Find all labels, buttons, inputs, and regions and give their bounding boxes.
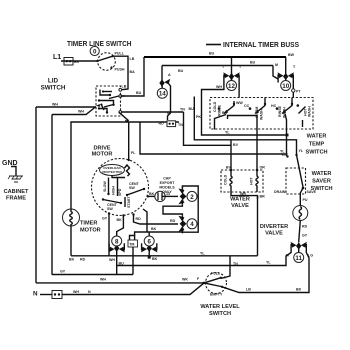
svg-text:WASH: WASH: [260, 109, 264, 120]
wire: empty contact to contact 11 right arm: [222, 253, 309, 293]
water valve hot coil: [250, 166, 266, 193]
wire: WH line from lid switch left to left vertical: [36, 103, 96, 108]
wire: valve common down to junction: [257, 196, 259, 256]
svg-text:EXPORT: EXPORT: [160, 181, 176, 185]
wire: lid terminal x197 down and right to x286: [121, 95, 126, 97]
svg-text:GY: GY: [302, 234, 308, 238]
svg-text:SPD: SPD: [118, 188, 122, 196]
circled 4: [187, 219, 197, 229]
svg-text:BV: BV: [233, 143, 239, 147]
bracket between contacts 2 and 4: [163, 204, 182, 215]
wire: outer loop joining contacts 2 and 4: [182, 186, 198, 232]
svg-text:SAVER: SAVER: [312, 179, 331, 185]
motor high winding label: [111, 178, 122, 197]
timer contact 8: [109, 237, 125, 253]
svg-text:WW: WW: [236, 101, 243, 105]
svg-text:WH: WH: [73, 290, 79, 294]
svg-text:11: 11: [295, 255, 302, 262]
wire: left long vertical x52 down: [51, 115, 53, 275]
timer contact 2: [178, 187, 186, 205]
circled 8: [112, 236, 122, 246]
svg-text:SW: SW: [107, 207, 113, 211]
svg-text:WATER LEVEL: WATER LEVEL: [200, 304, 240, 310]
motor lead RD to contact 4: [132, 213, 178, 224]
svg-text:WH: WH: [109, 258, 115, 262]
svg-text:BK: BK: [149, 192, 155, 196]
svg-text:PK: PK: [196, 115, 201, 119]
svg-text:TN: TN: [178, 123, 183, 127]
svg-text:HC: HC: [271, 104, 277, 108]
timer contact 10: [273, 57, 296, 85]
svg-text:N: N: [33, 291, 38, 298]
svg-text:WATER: WATER: [230, 197, 250, 203]
circled 2: [187, 191, 198, 201]
svg-text:FL: FL: [131, 151, 136, 155]
wire: contact 8 stem to connector: [116, 252, 118, 275]
svg-text:6: 6: [147, 238, 151, 245]
svg-text:PULL: PULL: [115, 52, 125, 56]
svg-text:CC: CC: [244, 104, 250, 108]
wire: 10 bottom to temp switch box: [292, 85, 302, 98]
second buss line: [162, 65, 273, 67]
svg-text:MOTOR: MOTOR: [92, 152, 113, 158]
temp switch section 2 contact: [244, 101, 266, 120]
timer contact 6: [141, 232, 157, 253]
wire: run y266.5 from connector to contact 11 left arm: [117, 253, 291, 266]
circled 10: [281, 79, 291, 91]
svg-text:BU: BU: [250, 61, 256, 65]
timer motor coil circle: [63, 209, 80, 226]
svg-text:TIMER: TIMER: [80, 221, 97, 227]
water saver blade: [295, 149, 304, 189]
svg-text:HOT: HOT: [250, 177, 254, 185]
svg-text:DIVERTER: DIVERTER: [260, 224, 288, 230]
circled 12: [227, 79, 237, 91]
wire: contact 6 stem down: [148, 252, 158, 262]
circled 11: [294, 249, 304, 263]
svg-text:0: 0: [93, 48, 97, 55]
wire: second line from lid switch to x52 vertical: [52, 107, 96, 115]
water valve: dashed box: [221, 170, 263, 192]
svg-text:LID: LID: [48, 78, 59, 85]
svg-text:MODELS: MODELS: [159, 186, 175, 190]
svg-text:EMPTY: EMPTY: [210, 293, 223, 297]
svg-text:YL: YL: [280, 150, 285, 154]
svg-text:BK: BK: [69, 258, 75, 262]
water valve cold coil: [224, 166, 233, 193]
svg-text:YL: YL: [266, 261, 271, 265]
timer contact 12: [222, 57, 242, 85]
wire: x257 down to valve OR: [228, 116, 258, 171]
svg-text:13: 13: [166, 192, 170, 196]
circled 0: [90, 46, 99, 55]
svg-text:HIGH: HIGH: [111, 186, 115, 195]
internal timer buss main line: [144, 56, 286, 58]
water saver switch: dashed box: [286, 168, 306, 194]
wire: x192 down to y140 right with valve branch: [184, 112, 232, 145]
svg-text:VALVE: VALVE: [265, 231, 283, 237]
circled 6: [144, 236, 154, 246]
svg-text:WASH: WASH: [308, 106, 312, 117]
svg-text:SW: SW: [129, 186, 135, 190]
svg-text:L1: L1: [53, 54, 61, 61]
diverter valve coil: [293, 188, 308, 221]
wire: run y262 from x52 to valve common: [52, 247, 133, 275]
circled 14: [157, 86, 167, 98]
svg-text:F: F: [197, 277, 200, 281]
svg-text:LB: LB: [130, 57, 135, 61]
svg-text:T: T: [293, 65, 296, 69]
svg-text:TIMER LINE SWITCH: TIMER LINE SWITCH: [67, 41, 132, 48]
wire: diverter coil to contact 11: [299, 221, 308, 243]
water level switch: dashed body circle: [206, 273, 227, 294]
wire: water level feed y282 from x36: [36, 282, 204, 284]
svg-text:CABINET: CABINET: [4, 189, 29, 195]
motor slow winding label: [103, 178, 110, 196]
svg-text:GY: GY: [60, 270, 66, 274]
svg-text:FULL: FULL: [211, 272, 221, 276]
lid switch internal contacts: [96, 88, 122, 113]
wire: 14 right arm down via connector to cap line: [167, 84, 171, 121]
svg-text:GY: GY: [102, 217, 108, 221]
svg-text:LB: LB: [122, 85, 127, 89]
timer contact 4: [178, 216, 186, 234]
connector CC at L1: [64, 58, 80, 66]
water temp switch: dashed box: [210, 98, 313, 130]
svg-text:PT: PT: [296, 90, 301, 94]
wire: 12 left arm step down to x202 run: [202, 84, 224, 95]
svg-text:CAP: CAP: [163, 177, 171, 181]
svg-text:TN: TN: [180, 108, 185, 112]
svg-text:RINSE: RINSE: [278, 105, 282, 117]
svg-text:8: 8: [115, 238, 119, 245]
svg-text:SWITCH: SWITCH: [41, 85, 66, 92]
motor cent sw lower blade: [102, 198, 122, 211]
svg-text:2: 2: [190, 194, 194, 201]
svg-text:N: N: [88, 290, 91, 294]
motor lead to contact 6: [143, 209, 147, 232]
svg-text:SWITCH: SWITCH: [209, 311, 231, 317]
connector DD on y122 line: [167, 121, 176, 127]
svg-text:BU: BU: [209, 52, 215, 56]
svg-text:BW: BW: [288, 53, 295, 57]
wire: 12 right arm drop to section1 contact: [238, 84, 240, 98]
svg-text:12: 12: [228, 83, 235, 90]
capacitor 13: [155, 191, 178, 201]
svg-text:LB: LB: [246, 288, 251, 292]
legend: INTERNAL TIMER BUSS: [206, 42, 299, 49]
water saver drain contact: [281, 153, 289, 158]
svg-text:4: 4: [190, 221, 194, 228]
wire: pull contact to LB vertical: [113, 56, 128, 90]
svg-text:COLD: COLD: [213, 101, 217, 112]
svg-text:YL: YL: [225, 131, 230, 135]
timer line switch blade and contacts: [96, 52, 124, 72]
motor right lead to capacitor: [147, 192, 155, 198]
wire: section verticals inside box: [264, 98, 266, 102]
drive motor: dashed body circle: [92, 159, 149, 216]
svg-text:BU: BU: [222, 111, 228, 115]
svg-text:INTERNAL TIMER BUSS: INTERNAL TIMER BUSS: [223, 42, 299, 49]
svg-text:WATER: WATER: [307, 134, 327, 140]
svg-text:RD: RD: [80, 258, 86, 262]
svg-text:BU: BU: [178, 69, 184, 73]
overload protector: [100, 159, 130, 178]
wire: inner rect left/top (through timer motor): [71, 122, 179, 256]
wire: lid switch terminal to bus drop x144: [122, 57, 145, 96]
svg-text:SLOW: SLOW: [103, 181, 107, 192]
svg-text:BR: BR: [260, 195, 266, 199]
temp switch section 1 contact: [213, 101, 243, 130]
svg-text:WH: WH: [100, 278, 106, 282]
timer contact 14: [159, 66, 171, 87]
wire: x202 from contact12 down to y134 right to saver pivot: [202, 95, 288, 135]
svg-text:PU: PU: [303, 198, 308, 202]
svg-text:OR: OR: [260, 166, 266, 170]
svg-text:PUSH: PUSH: [115, 68, 125, 72]
wire: long run y254 from timer motor to valve: [71, 255, 258, 257]
svg-text:BK: BK: [152, 257, 158, 261]
svg-text:BK: BK: [296, 288, 302, 292]
svg-text:MOTOR: MOTOR: [80, 228, 101, 234]
svg-text:VALVE: VALVE: [231, 203, 249, 209]
svg-text:BA: BA: [130, 70, 136, 74]
svg-text:RD: RD: [302, 225, 308, 229]
motor cent sw upper blade: [126, 182, 145, 196]
svg-text:COLD: COLD: [224, 174, 228, 185]
wire: valve coils to bottom common: [231, 192, 265, 199]
motor top lead FL: [129, 122, 136, 160]
svg-text:SWITCH: SWITCH: [305, 150, 327, 156]
lid switch blade to lower junction: [119, 112, 129, 123]
svg-text:RD: RD: [170, 219, 176, 223]
lid switch: dashed body box: [96, 86, 121, 116]
wire: neutral line to water level pivot: [40, 283, 204, 295]
svg-text:WATER: WATER: [312, 171, 332, 177]
wire: run y258 from contact6 to full contact: [222, 256, 231, 278]
water level switch blades: [197, 272, 223, 297]
svg-text:14: 14: [159, 91, 166, 98]
svg-text:BU: BU: [136, 91, 142, 95]
wire: L1 to timer line switch: [61, 60, 98, 62]
motor bottom leads: [102, 212, 110, 256]
svg-text:WK: WK: [182, 278, 188, 282]
timer line switch: dashed body circle: [98, 53, 116, 71]
svg-text:A: A: [168, 73, 171, 77]
label: CAP EXPORT MODELS ONLY: [159, 177, 175, 195]
svg-text:DRAIN: DRAIN: [274, 190, 286, 194]
svg-text:WH: WH: [52, 103, 58, 107]
wire: left long vertical x36 down to water level feed: [35, 107, 37, 283]
svg-text:YL: YL: [299, 149, 304, 153]
svg-text:RINSE: RINSE: [218, 104, 222, 116]
svg-text:PROTECTOR: PROTECTOR: [102, 170, 122, 174]
wire: lid terminal y112 right to x192: [122, 111, 184, 113]
svg-text:BU: BU: [189, 107, 195, 111]
svg-text:WR: WR: [240, 192, 246, 196]
svg-text:TEMP: TEMP: [309, 142, 325, 148]
temp switch section 3 contact: [271, 101, 312, 118]
timer contact 11: [286, 242, 313, 258]
svg-text:WH: WH: [216, 85, 222, 89]
motor start winding: [125, 195, 131, 208]
svg-text:FRAME: FRAME: [6, 196, 26, 202]
svg-text:YL: YL: [200, 252, 205, 256]
svg-text:BK: BK: [117, 218, 123, 222]
svg-text:RD: RD: [136, 217, 142, 221]
svg-text:10: 10: [282, 83, 289, 90]
TM connector box between 8 and 6: [128, 227, 182, 247]
wire: lid blade junction down to y154 run: [140, 122, 288, 154]
svg-text:M: M: [275, 63, 278, 67]
svg-text:BK: BK: [151, 227, 157, 231]
connector DD on neutral: [52, 291, 62, 299]
svg-text:START: START: [127, 195, 131, 208]
ground symbol: cabinet frame ground: [8, 167, 23, 183]
svg-text:WH: WH: [78, 110, 84, 114]
motor lead BK to contact 8: [117, 214, 125, 237]
svg-text:TM: TM: [129, 242, 134, 246]
svg-text:SAVE: SAVE: [307, 190, 317, 194]
